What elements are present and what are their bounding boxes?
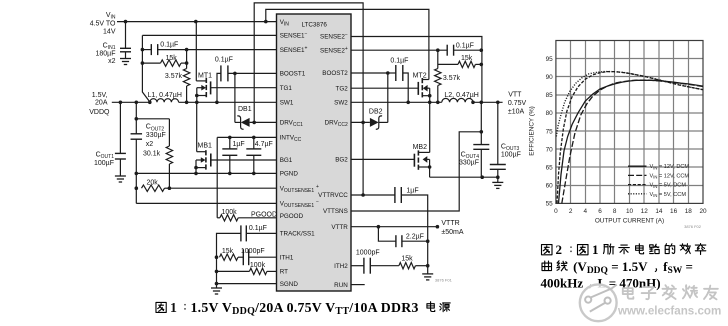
wire VTTR row	[351, 226, 437, 228]
wire 4.7uF bottom lead	[253, 155, 255, 173]
wire 2.2uF to ground vertical	[402, 240, 428, 242]
diode DB1 schottky	[237, 116, 243, 129]
wire MB2 source stub	[418, 166, 429, 168]
svg-text:SENSE1+: SENSE1+	[280, 46, 308, 54]
wire COUT1 to ground	[119, 159, 121, 176]
svg-text:85: 85	[546, 92, 554, 99]
node COUT1 junction	[119, 101, 123, 105]
MB2 gate bar	[413, 154, 415, 167]
svg-text:2.2µF: 2.2µF	[406, 234, 424, 241]
svg-text:15k: 15k	[166, 55, 178, 62]
capacitor COUT3	[490, 164, 506, 166]
svg-text:PGND: PGND	[280, 171, 299, 178]
svg-text:OUTPUT CURRENT (A): OUTPUT CURRENT (A)	[595, 217, 664, 224]
wire COUT4 branch	[480, 102, 482, 144]
resistor 15k channel2	[458, 61, 475, 67]
svg-text:4.7µF: 4.7µF	[255, 141, 273, 148]
wire MT1 source stub	[197, 95, 207, 97]
wire SS cap to SGND vertical	[217, 233, 241, 283]
svg-text:BG1: BG1	[280, 157, 293, 164]
svg-text:0.1µF: 0.1µF	[215, 57, 233, 64]
capacitor COUT1	[115, 152, 126, 154]
wire PGND row	[136, 172, 276, 174]
wire BG1 row	[211, 159, 277, 161]
wire 1uF to ground vertical	[401, 195, 427, 274]
node sense cap2 right	[480, 48, 484, 52]
svg-text:8: 8	[613, 208, 617, 215]
node COUT3/ground junction	[496, 175, 500, 179]
wire TG1 row	[211, 87, 277, 89]
node L1 left terminal	[148, 101, 152, 105]
wire COUT1 branch	[119, 102, 121, 153]
svg-text:16: 16	[670, 208, 678, 215]
inductor L1	[150, 99, 179, 103]
node COUT4 bottom	[480, 175, 484, 179]
svg-text:12: 12	[641, 208, 649, 215]
MT1 body wire	[197, 87, 202, 89]
chart legend	[628, 165, 647, 167]
svg-text:RT: RT	[280, 269, 288, 276]
capacitor 0.1uF boost 1	[220, 65, 222, 81]
node SGND/ground	[215, 282, 219, 286]
svg-text:MB1: MB1	[198, 143, 213, 150]
svg-text:1000pF: 1000pF	[241, 248, 265, 255]
wire PGOOD row	[238, 217, 276, 219]
svg-text:VTTRVCC: VTTRVCC	[318, 192, 348, 199]
capacitor CIN1	[120, 47, 131, 49]
svg-text:80: 80	[546, 110, 554, 117]
wire MT2 source stub	[422, 95, 429, 97]
svg-text:0: 0	[554, 208, 558, 215]
wire 3.57k bottom to SW rail	[186, 86, 188, 102]
wire BOOST2 row	[351, 72, 388, 74]
resistor 15k ITH2	[399, 263, 416, 269]
wire VIN row to IC	[117, 21, 277, 23]
svg-text:VIN = 5V, CCM: VIN = 5V, CCM	[650, 192, 687, 198]
node COUT4 junction	[480, 101, 484, 105]
svg-text:BG2: BG2	[335, 157, 348, 164]
svg-text:55: 55	[546, 201, 554, 208]
ground SGND	[211, 287, 222, 289]
svg-text:SENSE1−: SENSE1−	[280, 31, 308, 39]
svg-text:15k: 15k	[461, 55, 473, 62]
svg-text:SGND: SGND	[280, 281, 299, 288]
wire MB2 source vertical	[429, 159, 431, 177]
wire SENSE1- row	[142, 34, 276, 36]
wire MB1 source vertical	[195, 160, 197, 173]
wire TG2 row	[351, 87, 418, 89]
svg-text:www.elecfans.com: www.elecfans.com	[617, 305, 721, 318]
wire SENSE1+ row	[158, 49, 277, 51]
node ITH1 RC to SGND	[215, 255, 219, 259]
svg-text:30.1k: 30.1k	[143, 151, 161, 158]
node PGND row left end	[135, 172, 139, 176]
wire MB1 drain stub	[197, 151, 206, 153]
wire MT2 drain stub	[422, 79, 429, 81]
node MT1 source / MB1 drain on SW rail	[195, 101, 199, 105]
svg-text:75: 75	[546, 128, 554, 135]
svg-text:VTTR: VTTR	[441, 220, 459, 227]
node BOOST2/DB2 junction	[386, 71, 390, 75]
svg-text:(VDDQ = 1.5V: (VDDQ = 1.5V	[573, 259, 648, 276]
svg-text:60: 60	[546, 183, 554, 190]
wire RT left	[217, 270, 250, 272]
svg-text:MT1: MT1	[198, 72, 212, 79]
node 1uF bottom on PGND	[228, 172, 232, 176]
svg-text:14: 14	[655, 208, 663, 215]
MB2 arrow	[423, 156, 428, 163]
svg-text:100µF: 100µF	[94, 160, 114, 167]
capacitor 2.2uF VTTR	[395, 235, 397, 247]
curve VIN=12V DCM (solid)	[559, 80, 704, 203]
ground CIN1	[120, 58, 131, 60]
svg-text:0.1µF: 0.1µF	[390, 58, 408, 65]
node VTTRVCC/INTVCC rail junction	[361, 193, 365, 197]
node 2.2uF ground junction	[426, 239, 430, 243]
resistor 20k feedback divider bottom	[142, 185, 165, 191]
svg-text:18: 18	[685, 208, 693, 215]
wire RUN stub	[351, 284, 365, 286]
wire 15k2 left	[438, 63, 458, 65]
wire MB2 drain vertical	[429, 102, 431, 152]
wire COUT3 to ground	[497, 169, 499, 182]
wire 3.57k2 bottom	[437, 86, 439, 103]
svg-text:4.5V TO: 4.5V TO	[90, 21, 116, 28]
node 3.57k2 on rail	[436, 101, 440, 105]
node 4.7uF bottom on PGND	[252, 172, 256, 176]
svg-text:DB1: DB1	[238, 106, 252, 113]
node boost2 return on rail	[406, 101, 410, 105]
wire SENSE2+ row	[351, 49, 447, 51]
svg-text:VIN = 12V, DCM: VIN = 12V, DCM	[650, 164, 690, 170]
ground ITH2/VTTR network	[422, 273, 433, 275]
wire SGND row	[217, 283, 277, 285]
svg-text:1.5V,: 1.5V,	[92, 92, 108, 99]
node 3.57k/SW junction	[185, 101, 189, 105]
svg-text:0.1µF: 0.1µF	[160, 42, 178, 49]
svg-text:SW1: SW1	[280, 100, 294, 107]
wire DRVCC2 row	[351, 121, 370, 123]
resistor 30.1k feedback divider top	[166, 146, 172, 164]
curve VIN=5V DCM (dash)	[557, 72, 703, 204]
transistor MT1 channel/gate symbol	[205, 78, 207, 83]
node MT2 source / MB2 drain on rail	[428, 101, 432, 105]
MT2 body wire	[427, 87, 430, 89]
svg-text:330µF: 330µF	[146, 132, 166, 139]
capacitor COUT4	[473, 144, 489, 146]
node VTTR terminal	[436, 225, 440, 229]
svg-text:SW2: SW2	[334, 100, 348, 107]
wire SW1 rail	[179, 101, 277, 103]
wire COUT4 bottom lead	[480, 149, 482, 177]
MT1 gate bar	[210, 81, 212, 94]
wire COUT2 lower / ground sense vertical	[135, 139, 137, 203]
wire VTT rail right	[473, 101, 503, 103]
figure 1 caption	[156, 302, 166, 312]
wire ITH1 row	[249, 256, 277, 258]
wire CIN1 branch	[125, 22, 127, 49]
svg-text:BOOST2: BOOST2	[322, 70, 348, 77]
capacitor 0.1uF channel1 sense	[150, 44, 152, 55]
node 30.1k tap	[135, 117, 139, 121]
svg-text:LTC3876: LTC3876	[302, 22, 328, 29]
node 4.7uF top	[252, 136, 256, 140]
node VTTR/2.2uF junction	[377, 225, 381, 229]
MT1 arrow	[201, 85, 206, 91]
node 15k2 right	[480, 63, 484, 67]
wire VOUTSENSE1- row	[136, 202, 276, 204]
svg-text:65: 65	[546, 165, 554, 172]
wire ITH2 lead	[351, 265, 364, 267]
capacitor 1000pF ITH1	[242, 249, 244, 265]
wire COUT2 branch upper	[135, 102, 137, 134]
svg-text:VTT: VTT	[508, 92, 522, 99]
resistor 100k PGOOD pullup	[220, 215, 238, 221]
MB1 arrow	[201, 157, 206, 163]
svg-text:TG1: TG1	[280, 85, 293, 92]
wire BOOST1 row	[228, 72, 277, 74]
svg-text:x2: x2	[146, 141, 154, 148]
wire to 2.2uF	[378, 227, 396, 242]
svg-text:VIN = 5V, DCM: VIN = 5V, DCM	[650, 183, 687, 189]
wire BG2 row	[351, 158, 414, 160]
wire INTVCC top rail (DRVCC1 to DRVCC2/VTTRVCC)	[254, 3, 363, 195]
wire 30.1k bottom	[168, 164, 170, 188]
wire SENSE2- row and right box corner	[351, 37, 482, 102]
svg-text:20k: 20k	[147, 180, 159, 187]
svg-text:ITH1: ITH1	[280, 254, 294, 261]
svg-text:3876 F01: 3876 F01	[435, 278, 453, 283]
node sense cap left	[141, 48, 145, 52]
svg-text:1.5V VDDQ/20A 0.75V VTT/10A DD: 1.5V VDDQ/20A 0.75V VTT/10A DDR3	[191, 300, 419, 317]
svg-text:±10A: ±10A	[508, 109, 525, 116]
svg-text:2: 2	[569, 208, 573, 215]
node VIN / CIN1 junction	[124, 20, 128, 24]
node RT resistor to SGND	[215, 270, 219, 274]
resistor 100k RT	[249, 268, 267, 274]
svg-text:BOOST1: BOOST1	[280, 71, 306, 78]
wire COUT3 branch	[497, 102, 499, 164]
op-amp U1 LTC3876 controller IC body	[277, 14, 352, 291]
MB2 body wire	[427, 158, 430, 160]
node 15k left	[141, 61, 145, 65]
ground COUT3	[492, 181, 503, 183]
wire MT2 source vertical	[429, 88, 431, 102]
svg-text:1µF: 1µF	[233, 141, 245, 148]
node VTT sense tap	[480, 130, 484, 134]
inductor L2	[442, 98, 473, 102]
svg-text:14V: 14V	[103, 29, 116, 36]
wire 3.57k top	[186, 50, 188, 69]
svg-text:MT2: MT2	[413, 72, 427, 79]
MT2 arrow	[423, 85, 428, 92]
curve VIN=5V CCM (dotted)	[556, 72, 703, 137]
svg-text:95: 95	[546, 56, 554, 63]
curve VIN=12V CCM (long dash)	[562, 80, 703, 203]
svg-text:0.75V: 0.75V	[508, 100, 527, 107]
node DRVCC2/INTVCC rail junction	[361, 121, 365, 125]
svg-text:4: 4	[584, 208, 588, 215]
node MB2 source tee	[428, 165, 432, 169]
svg-text:3.57k: 3.57k	[443, 75, 461, 82]
wire 30.1k top	[168, 119, 170, 146]
capacitor 4.7uF INTVCC	[246, 148, 261, 150]
wire CIN1 to ground	[125, 52, 127, 59]
wire INTVCC row	[217, 136, 276, 138]
resistor 3.57k channel1	[183, 69, 189, 87]
wire MB1 source stub	[196, 167, 206, 169]
node MT2 source tee	[428, 94, 432, 98]
node SENSE2+ junction	[436, 48, 440, 52]
svg-text:1000pF: 1000pF	[356, 250, 380, 257]
svg-text:20A: 20A	[95, 100, 108, 107]
svg-text:SENSE2+: SENSE2+	[320, 46, 348, 54]
wire 4.7uF top lead	[253, 137, 255, 149]
wire VDDQ to 30.1k	[136, 118, 169, 120]
wire 1uF bottom lead	[229, 155, 231, 173]
svg-text:6: 6	[598, 208, 602, 215]
node 20k left	[135, 186, 139, 190]
svg-text:1µF: 1µF	[406, 188, 418, 195]
node DRVCC1/INTVCC rail junction	[252, 121, 256, 125]
wire boost cap1 to SW	[217, 73, 221, 102]
node 1uF top	[228, 136, 232, 140]
svg-text:DB2: DB2	[369, 109, 383, 116]
svg-text:EFFICIENCY (%): EFFICIENCY (%)	[529, 106, 536, 156]
svg-text:RUN: RUN	[334, 282, 348, 289]
ground COUT1	[115, 175, 126, 177]
svg-text:VIN = 12V, CCM: VIN = 12V, CCM	[650, 173, 690, 179]
MB1 gate bar	[210, 154, 212, 167]
node VIN / top rail junction	[264, 20, 268, 24]
wire TRACK/SS1 row	[246, 232, 276, 234]
capacitor 1uF VTTR	[394, 187, 396, 203]
MB1 body wire	[196, 159, 201, 161]
capacitor 1uF INTVCC	[222, 148, 237, 150]
svg-text:x2: x2	[108, 58, 116, 65]
node L2 right terminal	[471, 101, 475, 105]
wire MB1 drain vertical	[196, 102, 198, 151]
node ITH2 RC ground junction	[426, 264, 430, 268]
svg-text:L1, 0.47µH: L1, 0.47µH	[148, 92, 182, 99]
svg-text:SENSE2−: SENSE2−	[320, 33, 348, 41]
svg-text:2: 2	[556, 242, 563, 257]
svg-text:1: 1	[170, 300, 177, 315]
svg-text:1: 1	[592, 242, 599, 257]
svg-text:400kHz: 400kHz	[541, 276, 584, 291]
svg-text:3.57k: 3.57k	[165, 73, 183, 80]
watermark text 电子发烧友	[623, 285, 634, 298]
wire VTTRVCC row	[351, 194, 395, 196]
node BOOST1/DB1 junction	[233, 72, 237, 76]
svg-text:70: 70	[546, 146, 554, 153]
wire INTVCC to PGOOD pullup vertical	[216, 137, 218, 217]
svg-text:90: 90	[546, 74, 554, 81]
node 15k right	[185, 61, 189, 65]
wire MT1 drain vertical	[195, 22, 197, 81]
svg-text:20: 20	[699, 208, 707, 215]
wire to 15k	[142, 62, 160, 64]
wire to ground sym	[216, 284, 218, 288]
node VTT terminal	[496, 101, 500, 105]
svg-text:MB2: MB2	[413, 144, 428, 151]
svg-text:0.1µF: 0.1µF	[456, 43, 474, 50]
diode DB2 schottky	[370, 118, 379, 127]
wire VDDQ rail left	[112, 101, 150, 103]
wire sense cap2 to right vertical	[454, 49, 482, 51]
wire SW2 rail	[351, 101, 442, 103]
svg-text:VTTSNS: VTTSNS	[323, 208, 348, 215]
svg-text:PGOOD: PGOOD	[280, 213, 304, 220]
wire RT row	[267, 270, 277, 272]
resistor 15k ITH1	[220, 254, 239, 260]
capacitor 0.1uF boost 2	[395, 65, 397, 81]
svg-text:100µF: 100µF	[501, 152, 521, 159]
svg-text:3876 F02: 3876 F02	[684, 224, 702, 229]
wire sense box left vertical	[142, 35, 149, 101]
svg-text:100k: 100k	[250, 262, 266, 269]
svg-text:VDDQ: VDDQ	[89, 109, 110, 116]
chart gridlines	[556, 41, 703, 204]
node MT1 source tee	[195, 94, 199, 98]
node boost cap return on SW rail	[215, 101, 219, 105]
resistor 3.57k channel2	[435, 69, 441, 86]
node SENSE1+ junction	[185, 48, 189, 52]
capacitor 0.1uF channel2 sense	[446, 45, 448, 56]
wire right PGND row	[430, 176, 498, 178]
figure 2 caption	[542, 245, 553, 255]
wire DB1 cathode vertical	[234, 73, 236, 122]
svg-text:10: 10	[626, 208, 634, 215]
svg-text:330µF: 330µF	[459, 159, 479, 166]
svg-text:ITH2: ITH2	[334, 263, 348, 270]
wire VOUTSENSE1+ row	[169, 187, 276, 189]
wire boost cap2 to SW2 rail	[403, 73, 408, 102]
wire VIN top rail to MT2 drain	[266, 9, 429, 79]
capacitor COUT2	[131, 133, 143, 135]
capacitor 0.1uF TRACK/SS1	[240, 225, 242, 241]
svg-text:TG2: TG2	[336, 85, 349, 92]
wire to sense cap C1	[142, 49, 151, 51]
wire DRVCC1 row	[250, 121, 277, 123]
svg-text:15k: 15k	[222, 248, 234, 255]
watermark elecfans logo	[580, 284, 617, 321]
svg-text:±50mA: ±50mA	[441, 229, 463, 236]
wire MB2 drain stub	[418, 151, 429, 153]
wire MT1 drain stub	[196, 80, 206, 82]
chart frame	[556, 41, 703, 204]
svg-text:TRACK/SS1: TRACK/SS1	[280, 231, 315, 238]
MT2 gate bar	[417, 82, 419, 95]
node VIN / MT1 drain junction	[194, 20, 198, 24]
svg-text:15k: 15k	[401, 255, 413, 262]
wire 1uF top lead	[229, 137, 231, 149]
node COUT2 junction	[135, 101, 139, 105]
svg-text:180µF: 180µF	[96, 51, 116, 58]
svg-text:0.1µF: 0.1µF	[249, 225, 267, 232]
capacitor 1000pF ITH2	[363, 258, 365, 274]
wire 1000pF to 15k	[370, 265, 399, 267]
wire 3.57k2 top	[437, 50, 439, 68]
svg-text:100k: 100k	[222, 209, 238, 216]
svg-text:VTTR: VTTR	[331, 224, 348, 231]
node MB1 source on PGND	[194, 172, 198, 176]
wire MT1 source vertical	[196, 88, 198, 103]
node MB1 source tee	[194, 166, 198, 170]
wire VTTSNS remote sense	[351, 132, 481, 211]
node divider midpoint VOUTSENSE1+	[168, 186, 172, 190]
wire DB2 cathode vertical	[387, 73, 389, 122]
